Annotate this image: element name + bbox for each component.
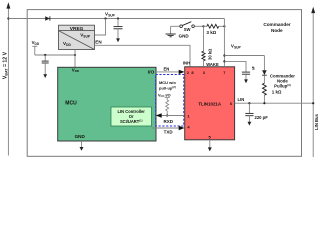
label INH <box>183 60 190 65</box>
resistor R3 (RXD pull-up) <box>165 98 170 117</box>
svg-text:RXD: RXD <box>164 119 174 124</box>
svg-text:MCU: MCU <box>65 101 77 107</box>
svg-text:WAKE: WAKE <box>206 62 219 67</box>
resistor R4 1k pullup <box>263 83 283 103</box>
label VSUP (pin7) <box>231 43 242 49</box>
VDD supply tap <box>32 46 37 55</box>
resistor R1 3k <box>204 24 225 35</box>
svg-text:Pullup(3): Pullup(3) <box>274 83 291 88</box>
ground arrow C1 <box>116 38 120 42</box>
label commander node pullup <box>270 74 295 89</box>
dashed box MCU w/o pull-up <box>156 75 184 127</box>
commander node box <box>27 10 301 157</box>
wire VDD row <box>35 54 75 56</box>
ground arrow C4 <box>248 122 252 126</box>
wire pin7 VSUP vertical <box>223 19 225 67</box>
ground arrow C3 <box>244 79 248 83</box>
wire RXD pin1 to MCU <box>156 113 185 117</box>
wire LIN <box>235 102 314 104</box>
svg-text:SW: SW <box>184 27 191 32</box>
svg-text:Node: Node <box>271 28 283 33</box>
svg-text:I/O: I/O <box>148 70 155 76</box>
transceiver U1 TLIN1021A <box>185 67 235 140</box>
svg-text:30 kΩ: 30 kΩ <box>208 49 213 60</box>
svg-text:VBAT = 12 V: VBAT = 12 V <box>2 51 8 79</box>
label RXD <box>164 119 174 124</box>
node junction WAKE branch <box>202 25 204 27</box>
label VBAT = 12 V <box>2 51 8 79</box>
label LIN <box>238 97 245 102</box>
svg-text:Commander: Commander <box>263 22 291 27</box>
label VSUP <box>105 12 116 18</box>
svg-text:LIN: LIN <box>238 97 245 102</box>
capacitor C2 (VDD) <box>42 55 49 75</box>
capacitor C1 (VSUP filter) <box>114 19 123 39</box>
node junction C2 <box>44 54 46 56</box>
ground arrow C2 <box>43 74 47 78</box>
svg-text:VSUP: VSUP <box>105 12 116 18</box>
wire TXD MCU to pin4 <box>152 126 185 130</box>
svg-text:VSUP: VSUP <box>231 43 242 49</box>
wire VSUP top rail <box>8 18 224 20</box>
ground arrow pin5 <box>208 140 212 151</box>
label WAKE <box>206 62 219 67</box>
svg-text:EN: EN <box>164 67 170 72</box>
node junction VREG VDD pin <box>74 50 76 68</box>
switch SW <box>171 22 204 32</box>
node junction diode branch <box>223 54 264 56</box>
svg-text:TLIN1021A: TLIN1021A <box>198 102 222 107</box>
node junction cap branch <box>223 60 246 72</box>
svg-text:nF: nF <box>252 66 256 70</box>
node junction 220pF <box>248 102 250 104</box>
svg-text:VREG: VREG <box>70 26 84 32</box>
svg-text:pull-up(2): pull-up(2) <box>159 85 176 90</box>
wire EN MCU to pin2 <box>156 70 185 74</box>
label VDD tap <box>32 40 40 46</box>
svg-text:EN: EN <box>95 40 102 45</box>
svg-text:VDD: VDD <box>32 40 40 46</box>
label TXD <box>164 130 174 135</box>
capacitor C3 100nF <box>242 66 256 79</box>
label Commander Node <box>263 22 291 33</box>
svg-text:INH: INH <box>183 60 190 65</box>
node junction pullup-LIN <box>263 102 265 104</box>
node VBAT rail <box>6 2 10 155</box>
node junction cap <box>117 17 119 19</box>
label EN (net) <box>164 67 170 72</box>
label LIN Bus <box>314 113 319 129</box>
svg-text:1 kΩ: 1 kΩ <box>272 90 282 95</box>
node junction pin7 rail <box>223 25 225 27</box>
label VCC I/O <box>158 93 171 98</box>
MCU U3 <box>58 67 156 141</box>
svg-text:LIN Bus: LIN Bus <box>314 113 319 129</box>
LIN bus line <box>311 7 315 157</box>
capacitor C4 220pF <box>245 103 268 122</box>
LIN controller block <box>111 107 152 126</box>
svg-text:VDD: VDD <box>72 67 80 73</box>
ground arrow MCU GND <box>80 141 84 151</box>
diode D2 <box>262 56 267 84</box>
svg-text:SCI/UART(1): SCI/UART(1) <box>120 119 143 124</box>
svg-text:TXD: TXD <box>164 130 174 135</box>
wire VREG EN to INH <box>95 45 191 67</box>
VREG U2 <box>59 25 95 49</box>
svg-text:GND: GND <box>75 134 86 139</box>
svg-text:GND: GND <box>179 33 190 38</box>
svg-text:3 kΩ: 3 kΩ <box>206 30 216 35</box>
node junction VREG-VSUP <box>104 17 106 19</box>
label EN (VREG pin) <box>95 40 102 45</box>
svg-text:220 pF: 220 pF <box>255 115 269 120</box>
diode D1 <box>45 16 50 20</box>
ground symbol SW <box>166 26 190 38</box>
wire rail to VREG VSUP <box>95 19 106 36</box>
resistor R2 30k (WAKE) <box>202 26 213 67</box>
